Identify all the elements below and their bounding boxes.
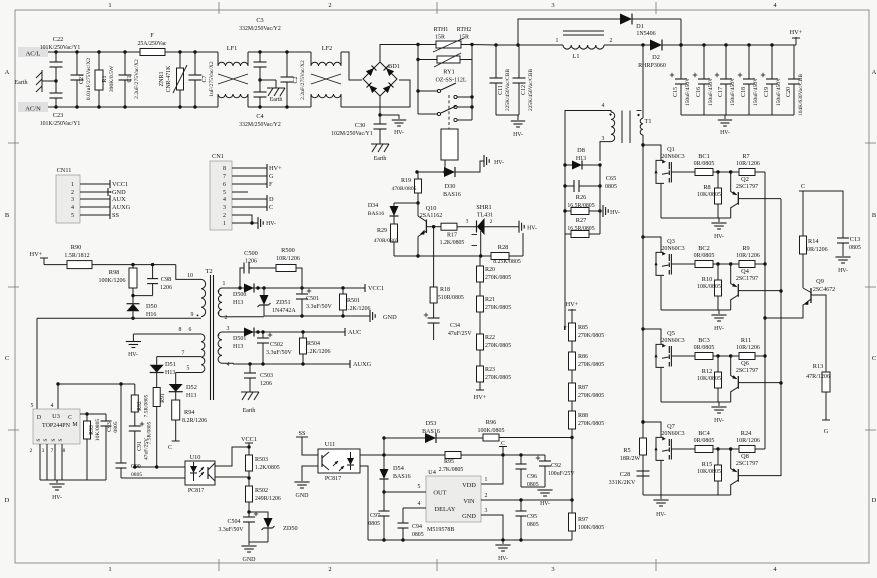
svg-text:VDD: VDD xyxy=(462,482,476,489)
svg-text:PC817: PC817 xyxy=(188,488,204,494)
svg-text:R24: R24 xyxy=(741,430,752,437)
svg-text:2.2uF/275Vac/X2: 2.2uF/275Vac/X2 xyxy=(134,59,140,99)
svg-text:0805: 0805 xyxy=(605,184,617,190)
svg-text:C11: C11 xyxy=(498,85,504,95)
svg-text:SS: SS xyxy=(112,212,120,219)
svg-text:Earth: Earth xyxy=(15,80,28,86)
svg-text:R91: R91 xyxy=(160,393,166,403)
svg-text:HV-: HV- xyxy=(527,226,537,232)
svg-text:GND: GND xyxy=(243,557,257,563)
svg-text:H13: H13 xyxy=(576,156,586,162)
svg-text:270K/0805: 270K/0805 xyxy=(578,333,604,339)
svg-text:1N4742A: 1N4742A xyxy=(272,308,296,314)
svg-text:R21: R21 xyxy=(485,297,495,303)
svg-text:C: C xyxy=(269,204,273,211)
svg-text:U4: U4 xyxy=(428,469,437,476)
svg-text:HV-: HV- xyxy=(266,221,276,227)
svg-text:0805: 0805 xyxy=(527,482,539,488)
svg-text:18R/2W: 18R/2W xyxy=(620,456,641,462)
svg-text:M519578B: M519578B xyxy=(427,527,454,533)
svg-text:D1: D1 xyxy=(636,23,644,30)
svg-text:D: D xyxy=(269,196,274,203)
svg-text:AC/N: AC/N xyxy=(25,106,41,113)
svg-text:Q10: Q10 xyxy=(426,205,437,212)
svg-text:D2: D2 xyxy=(652,54,660,61)
svg-text:1: 1 xyxy=(223,221,226,227)
svg-text:HV-: HV- xyxy=(52,495,62,501)
svg-text:0805: 0805 xyxy=(849,245,861,251)
svg-text:3.3uF/50V: 3.3uF/50V xyxy=(219,527,245,533)
svg-text:2SC1797: 2SC1797 xyxy=(736,461,758,467)
svg-text:H13: H13 xyxy=(186,393,196,399)
svg-text:C7: C7 xyxy=(202,75,208,82)
svg-text:R98: R98 xyxy=(109,269,120,276)
svg-text:101K/250Vac/Y1: 101K/250Vac/Y1 xyxy=(40,121,81,127)
svg-text:2: 2 xyxy=(225,315,228,321)
svg-text:HV-: HV- xyxy=(656,512,666,518)
svg-text:2.7K/0805: 2.7K/0805 xyxy=(439,467,464,473)
svg-text:GND: GND xyxy=(112,189,126,196)
svg-text:270K/0805: 270K/0805 xyxy=(578,393,604,399)
svg-text:H13: H13 xyxy=(165,370,175,376)
svg-text:0805: 0805 xyxy=(113,421,119,432)
svg-text:R500: R500 xyxy=(281,247,295,254)
svg-text:D501: D501 xyxy=(233,336,246,342)
svg-text:CN1: CN1 xyxy=(212,153,224,160)
svg-text:GND: GND xyxy=(296,493,310,499)
svg-text:R18: R18 xyxy=(440,287,450,293)
svg-text:C: C xyxy=(5,355,9,362)
svg-text:RTH1: RTH1 xyxy=(434,27,449,33)
svg-text:BC1: BC1 xyxy=(698,153,710,160)
svg-text:A: A xyxy=(872,69,877,76)
svg-text:15R: 15R xyxy=(435,35,445,41)
svg-text:D34: D34 xyxy=(368,203,378,209)
svg-text:Q4: Q4 xyxy=(741,268,750,275)
svg-text:2SA1162: 2SA1162 xyxy=(420,213,442,219)
svg-text:16.5R/0805: 16.5R/0805 xyxy=(567,226,594,232)
svg-text:C95: C95 xyxy=(527,514,537,520)
svg-text:C92: C92 xyxy=(551,463,561,469)
svg-text:2: 2 xyxy=(485,493,488,499)
svg-text:H16: H16 xyxy=(146,312,156,318)
svg-text:ZD50: ZD50 xyxy=(283,525,298,532)
svg-text:0R/1206: 0R/1206 xyxy=(807,247,828,253)
svg-text:VCC1: VCC1 xyxy=(368,285,384,292)
svg-text:2: 2 xyxy=(71,190,74,196)
svg-text:4: 4 xyxy=(227,362,230,368)
svg-text:C502: C502 xyxy=(270,342,283,348)
svg-text:CN11: CN11 xyxy=(57,167,72,174)
svg-text:HV+: HV+ xyxy=(790,29,803,36)
svg-text:R27: R27 xyxy=(576,217,587,224)
svg-text:R92: R92 xyxy=(137,401,143,411)
svg-text:7.5R/0805: 7.5R/0805 xyxy=(147,421,153,444)
svg-text:1206: 1206 xyxy=(160,285,172,291)
svg-text:2: 2 xyxy=(328,566,331,573)
svg-text:270K/0805: 270K/0805 xyxy=(485,275,511,281)
svg-text:C504: C504 xyxy=(227,519,240,525)
svg-text:Earth: Earth xyxy=(270,97,283,103)
svg-text:R13: R13 xyxy=(813,363,824,370)
svg-text:HV-: HV- xyxy=(720,130,730,136)
svg-text:6: 6 xyxy=(223,182,226,188)
svg-text:2SC1797: 2SC1797 xyxy=(736,184,758,190)
svg-text:C65: C65 xyxy=(606,175,617,182)
svg-text:H13: H13 xyxy=(233,344,243,350)
svg-text:DELAY: DELAY xyxy=(434,506,455,513)
svg-text:C21: C21 xyxy=(79,74,85,84)
svg-text:Q9: Q9 xyxy=(816,278,824,285)
svg-text:R23: R23 xyxy=(485,367,495,373)
svg-text:1206: 1206 xyxy=(245,259,257,265)
svg-text:HV-: HV- xyxy=(494,160,504,166)
svg-text:F: F xyxy=(269,181,273,188)
svg-text:R15: R15 xyxy=(702,461,713,468)
svg-text:D8: D8 xyxy=(577,147,585,154)
svg-text:2: 2 xyxy=(328,2,331,9)
svg-text:BC4: BC4 xyxy=(698,430,710,437)
svg-text:3: 3 xyxy=(42,448,45,454)
svg-text:R7: R7 xyxy=(742,153,749,160)
svg-text:225K/450Vac/CBB: 225K/450Vac/CBB xyxy=(505,69,511,111)
svg-text:2SC4672: 2SC4672 xyxy=(813,287,835,293)
svg-text:2: 2 xyxy=(610,38,613,44)
svg-text:0805: 0805 xyxy=(412,532,424,538)
svg-text:R95: R95 xyxy=(444,459,454,465)
svg-text:Q3: Q3 xyxy=(667,238,675,245)
svg-text:T2: T2 xyxy=(205,268,212,275)
svg-text:AC/L: AC/L xyxy=(26,51,41,58)
svg-text:B: B xyxy=(872,212,877,219)
svg-text:C91: C91 xyxy=(137,441,143,451)
svg-text:HV-: HV- xyxy=(513,132,523,138)
svg-text:R9: R9 xyxy=(742,245,749,252)
svg-text:BD1: BD1 xyxy=(388,63,400,70)
svg-text:16.5R/0805: 16.5R/0805 xyxy=(567,203,594,209)
svg-text:C97: C97 xyxy=(370,513,380,519)
svg-text:BAS16: BAS16 xyxy=(368,211,385,217)
svg-text:8.25K/0805: 8.25K/0805 xyxy=(493,259,521,265)
svg-text:Q2: Q2 xyxy=(741,176,749,183)
svg-text:10R/1206: 10R/1206 xyxy=(736,253,760,259)
svg-text:4: 4 xyxy=(418,501,421,507)
svg-text:U3: U3 xyxy=(52,413,60,420)
svg-text:TL431: TL431 xyxy=(477,213,493,219)
svg-text:R86: R86 xyxy=(578,354,588,360)
svg-text:150uF/450V: 150uF/450V xyxy=(730,78,736,106)
svg-text:150uF/450V: 150uF/450V xyxy=(776,78,782,106)
svg-text:HV+: HV+ xyxy=(30,251,43,258)
svg-text:G: G xyxy=(824,428,829,435)
svg-text:BC3: BC3 xyxy=(698,337,710,344)
svg-text:S: S xyxy=(36,438,42,441)
svg-text:HV+: HV+ xyxy=(269,165,282,172)
svg-text:M: M xyxy=(72,422,77,428)
svg-text:C16: C16 xyxy=(696,87,702,97)
svg-text:OUT: OUT xyxy=(433,490,446,497)
svg-text:R17: R17 xyxy=(447,233,457,239)
svg-text:25A/250Vac: 25A/250Vac xyxy=(138,41,167,47)
svg-text:R85: R85 xyxy=(578,325,588,331)
svg-text:BAS16: BAS16 xyxy=(393,474,411,480)
svg-text:S: S xyxy=(43,438,49,441)
svg-text:100K/0805: 100K/0805 xyxy=(478,428,505,434)
svg-text:R29: R29 xyxy=(377,228,387,234)
svg-text:102M/250Vac/Y1: 102M/250Vac/Y1 xyxy=(331,131,373,137)
svg-text:R90: R90 xyxy=(71,244,82,251)
svg-text:C18: C18 xyxy=(741,87,747,97)
svg-text:H13: H13 xyxy=(233,300,243,306)
svg-text:HV-: HV- xyxy=(714,418,724,424)
svg-text:GND: GND xyxy=(383,314,397,321)
svg-text:HV-: HV- xyxy=(714,234,724,240)
svg-text:D53: D53 xyxy=(426,420,437,427)
svg-text:Q8: Q8 xyxy=(741,453,749,460)
svg-text:R12: R12 xyxy=(702,368,713,375)
svg-text:470R/0805: 470R/0805 xyxy=(374,238,399,244)
svg-text:101K/250Vac/Y1: 101K/250Vac/Y1 xyxy=(40,45,81,51)
svg-text:47uF/25V: 47uF/25V xyxy=(448,331,472,337)
svg-text:1.2K/0805: 1.2K/0805 xyxy=(440,240,465,246)
svg-text:TOP244PN: TOP244PN xyxy=(42,423,71,429)
svg-text:C98: C98 xyxy=(161,276,172,283)
svg-text:C3: C3 xyxy=(256,17,263,24)
svg-text:ZNR1: ZNR1 xyxy=(159,72,165,87)
svg-text:U10: U10 xyxy=(190,454,201,461)
svg-text:5: 5 xyxy=(418,484,421,490)
svg-text:4: 4 xyxy=(223,197,226,203)
svg-text:5: 5 xyxy=(223,190,226,196)
svg-text:C1: C1 xyxy=(127,75,133,82)
svg-text:R504: R504 xyxy=(307,341,320,347)
svg-text:0805: 0805 xyxy=(527,522,539,528)
svg-text:C: C xyxy=(168,445,172,451)
svg-text:U11: U11 xyxy=(325,441,336,448)
svg-text:249R/1206: 249R/1206 xyxy=(255,496,281,502)
svg-text:CNR-471K: CNR-471K xyxy=(166,65,172,93)
svg-text:D: D xyxy=(37,415,41,421)
svg-text:8.2R/1206: 8.2R/1206 xyxy=(182,418,207,424)
svg-text:8: 8 xyxy=(179,327,182,333)
svg-text:3: 3 xyxy=(71,197,74,203)
svg-text:332M/250Vac/Y2: 332M/250Vac/Y2 xyxy=(239,122,281,128)
svg-text:270K/0805: 270K/0805 xyxy=(578,421,604,427)
svg-text:1N5406: 1N5406 xyxy=(636,31,655,37)
svg-text:C17: C17 xyxy=(718,87,724,97)
svg-text:R19: R19 xyxy=(401,178,411,184)
svg-text:T1: T1 xyxy=(645,118,652,125)
svg-text:R94: R94 xyxy=(184,409,195,416)
svg-text:150uF/450V: 150uF/450V xyxy=(708,78,714,106)
svg-text:HV+: HV+ xyxy=(474,394,487,401)
svg-text:0.01uF/275Vac/X2: 0.01uF/275Vac/X2 xyxy=(86,58,92,101)
svg-text:225K/450Vac/CBB: 225K/450Vac/CBB xyxy=(528,69,534,111)
svg-text:ZD51: ZD51 xyxy=(276,299,291,306)
svg-text:3: 3 xyxy=(227,326,230,332)
svg-text:BAS16: BAS16 xyxy=(443,192,461,198)
svg-text:C96: C96 xyxy=(527,474,537,480)
svg-text:C: C xyxy=(68,415,72,421)
svg-text:7: 7 xyxy=(51,448,54,454)
svg-text:HV-: HV- xyxy=(838,268,848,274)
svg-text:C2: C2 xyxy=(293,76,299,83)
svg-text:100K/0805: 100K/0805 xyxy=(578,525,604,531)
svg-text:C19: C19 xyxy=(764,87,770,97)
svg-text:150uF/450V: 150uF/450V xyxy=(753,78,759,106)
svg-text:B: B xyxy=(5,212,10,219)
svg-text:C501: C501 xyxy=(306,296,319,302)
svg-text:5: 5 xyxy=(71,213,74,219)
svg-text:47R/1206: 47R/1206 xyxy=(806,374,830,380)
svg-text:L1: L1 xyxy=(573,53,580,60)
svg-text:D50: D50 xyxy=(146,303,157,310)
svg-text:0R/0805: 0R/0805 xyxy=(694,438,715,444)
svg-text:C90: C90 xyxy=(131,464,141,470)
svg-text:GND: GND xyxy=(462,513,476,520)
svg-text:3: 3 xyxy=(485,508,488,514)
svg-text:A: A xyxy=(5,69,10,76)
svg-text:C: C xyxy=(872,355,876,362)
svg-text:10K/0805: 10K/0805 xyxy=(697,469,721,475)
svg-text:390K/0.5W: 390K/0.5W xyxy=(109,65,115,92)
svg-text:OZ-SS-112L: OZ-SS-112L xyxy=(435,78,466,84)
svg-text:7.5R/0805: 7.5R/0805 xyxy=(144,394,150,417)
svg-text:R96: R96 xyxy=(486,419,497,426)
svg-text:2: 2 xyxy=(30,448,33,454)
svg-text:C13: C13 xyxy=(850,236,861,243)
svg-text:8: 8 xyxy=(223,166,226,172)
svg-text:100K/1206: 100K/1206 xyxy=(99,278,126,284)
svg-text:C503: C503 xyxy=(260,373,273,379)
svg-text:R5: R5 xyxy=(623,447,630,454)
svg-text:1: 1 xyxy=(71,182,74,188)
svg-text:10K/0805: 10K/0805 xyxy=(697,192,721,198)
svg-text:AUC: AUC xyxy=(348,329,361,336)
svg-text:10K/0805: 10K/0805 xyxy=(697,376,721,382)
svg-text:C4: C4 xyxy=(256,113,264,120)
svg-text:270K/0805: 270K/0805 xyxy=(485,343,511,349)
svg-text:RTH2: RTH2 xyxy=(457,27,472,33)
svg-text:10: 10 xyxy=(187,273,193,279)
svg-text:331K/2KV: 331K/2KV xyxy=(609,480,636,486)
svg-text:C20: C20 xyxy=(786,87,792,97)
svg-text:D30: D30 xyxy=(445,183,456,190)
svg-text:C: C xyxy=(801,183,805,190)
svg-text:R503: R503 xyxy=(255,457,268,463)
svg-text:1: 1 xyxy=(108,566,111,573)
svg-text:1.2K/1206: 1.2K/1206 xyxy=(305,349,331,355)
svg-text:0805: 0805 xyxy=(131,472,142,478)
svg-text:C: C xyxy=(501,441,505,447)
svg-text:5: 5 xyxy=(31,403,34,409)
svg-text:D: D xyxy=(872,497,877,504)
svg-text:G: G xyxy=(269,173,274,180)
svg-text:C34: C34 xyxy=(450,323,460,329)
svg-text:0R/0805: 0R/0805 xyxy=(694,253,715,259)
svg-text:Q7: Q7 xyxy=(667,423,675,430)
svg-text:D500: D500 xyxy=(233,292,246,298)
svg-text:10R/1206: 10R/1206 xyxy=(736,345,760,351)
svg-text:0R/0805: 0R/0805 xyxy=(694,345,715,351)
svg-text:S: S xyxy=(58,438,64,441)
svg-text:SHR1: SHR1 xyxy=(476,204,491,211)
svg-text:R14: R14 xyxy=(808,238,819,245)
svg-text:6: 6 xyxy=(189,327,192,333)
svg-text:PC817: PC817 xyxy=(325,476,341,482)
svg-text:R28: R28 xyxy=(498,244,509,251)
svg-text:0805: 0805 xyxy=(368,521,380,527)
svg-text:Earth: Earth xyxy=(243,408,256,414)
svg-text:R26: R26 xyxy=(576,194,587,201)
svg-text:1: 1 xyxy=(556,38,559,44)
svg-text:D54: D54 xyxy=(393,465,405,472)
svg-text:1.2K/0805: 1.2K/0805 xyxy=(255,465,280,471)
svg-text:R22: R22 xyxy=(485,335,495,341)
svg-text:HV-: HV- xyxy=(498,556,508,562)
svg-text:LF1: LF1 xyxy=(227,45,238,52)
svg-text:Q5: Q5 xyxy=(667,330,675,337)
svg-text:7: 7 xyxy=(182,351,185,357)
svg-text:10R/1206: 10R/1206 xyxy=(736,161,760,167)
svg-text:R8: R8 xyxy=(703,184,710,191)
svg-text:8: 8 xyxy=(63,448,66,454)
svg-text:R501: R501 xyxy=(347,298,360,304)
svg-text:15R: 15R xyxy=(459,35,469,41)
svg-text:R20: R20 xyxy=(485,267,495,273)
svg-text:C15: C15 xyxy=(673,87,679,97)
svg-text:D52: D52 xyxy=(186,384,197,391)
svg-text:C28: C28 xyxy=(620,471,631,478)
svg-text:7: 7 xyxy=(223,174,226,180)
svg-text:C12: C12 xyxy=(521,85,527,95)
svg-text:C23: C23 xyxy=(53,112,64,119)
svg-text:20N60C3: 20N60C3 xyxy=(661,431,684,437)
svg-text:HV+: HV+ xyxy=(566,301,579,308)
svg-text:R10: R10 xyxy=(702,276,713,283)
svg-text:AUXG: AUXG xyxy=(112,204,131,211)
svg-text:20N60C3: 20N60C3 xyxy=(661,338,684,344)
svg-text:3: 3 xyxy=(551,566,554,573)
svg-text:4: 4 xyxy=(602,103,605,109)
svg-text:5: 5 xyxy=(187,366,190,372)
svg-text:10K/0805: 10K/0805 xyxy=(697,284,721,290)
svg-text:10R/1206: 10R/1206 xyxy=(276,256,300,262)
svg-text:104K/630Vac/CBB: 104K/630Vac/CBB xyxy=(798,74,804,116)
svg-text:HV-: HV- xyxy=(714,326,724,332)
svg-text:270K/0805: 270K/0805 xyxy=(578,362,604,368)
svg-text:R97: R97 xyxy=(578,517,588,523)
svg-text:100uF/25V: 100uF/25V xyxy=(548,471,575,477)
svg-text:Q1: Q1 xyxy=(667,146,675,153)
svg-text:SS: SS xyxy=(298,430,306,437)
svg-text:0R/0805: 0R/0805 xyxy=(694,161,715,167)
svg-text:VCC1: VCC1 xyxy=(112,181,128,188)
svg-text:R11: R11 xyxy=(741,337,751,344)
svg-text:2SC1797: 2SC1797 xyxy=(736,276,758,282)
svg-text:3: 3 xyxy=(223,205,226,211)
svg-text:HV-: HV- xyxy=(394,130,404,136)
svg-text:AUXG: AUXG xyxy=(353,361,372,368)
svg-text:C94: C94 xyxy=(412,524,422,530)
svg-text:20N60C3: 20N60C3 xyxy=(661,154,684,160)
svg-text:4: 4 xyxy=(71,205,74,211)
svg-text:150uF/450V: 150uF/450V xyxy=(685,78,691,106)
svg-text:C22: C22 xyxy=(53,36,64,43)
svg-text:3: 3 xyxy=(602,136,605,142)
svg-text:1: 1 xyxy=(223,281,226,287)
svg-text:BAS16: BAS16 xyxy=(422,429,440,435)
